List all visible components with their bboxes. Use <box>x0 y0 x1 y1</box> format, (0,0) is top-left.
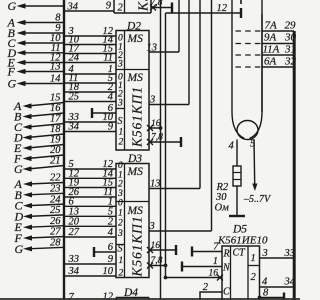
svg-text:3: 3 <box>117 229 123 239</box>
svg-text:G: G <box>8 0 17 13</box>
svg-text:C: C <box>223 287 230 298</box>
svg-text:3: 3 <box>117 99 123 109</box>
svg-text:33: 33 <box>68 254 80 265</box>
node F13 input wire <box>7 62 65 79</box>
VFD tube envelope (cut off at top) <box>232 0 245 139</box>
node B16 input wire <box>14 103 64 123</box>
svg-text:2: 2 <box>119 138 124 148</box>
svg-text:27: 27 <box>50 227 61 238</box>
svg-text:4: 4 <box>108 227 114 238</box>
svg-text:16: 16 <box>151 241 161 251</box>
D5 pin 1 input wire from terminal <box>182 256 222 272</box>
svg-text:12: 12 <box>217 3 228 14</box>
svg-text:6: 6 <box>108 242 114 253</box>
svg-text:9: 9 <box>108 254 114 265</box>
thick cable rail at right <box>293 31 296 300</box>
node F20 input wire <box>13 145 64 165</box>
svg-text:2: 2 <box>118 180 123 190</box>
svg-text:8: 8 <box>55 13 61 24</box>
svg-text:S: S <box>118 244 123 255</box>
svg-text:4: 4 <box>262 277 268 288</box>
wire tap 34 to D3 pin 10 <box>64 266 116 277</box>
node A22 input wire <box>14 173 65 191</box>
terminal of wire 12 <box>240 8 242 18</box>
anode row 9A wire 30 <box>262 32 297 44</box>
svg-text:34: 34 <box>68 122 80 133</box>
anode row 6A wire 32 <box>262 56 297 68</box>
svg-text:3: 3 <box>149 95 155 106</box>
svg-text:11A: 11A <box>263 44 280 56</box>
wire from tube pin 4 <box>236 140 238 167</box>
wire tap 12 to D3 pin 14 <box>64 169 116 180</box>
counter D5 К561ИЕ10 <box>217 224 268 300</box>
junction: D2 pin16 to rail 1 <box>159 126 163 130</box>
svg-text:2: 2 <box>108 217 114 228</box>
svg-text:24: 24 <box>50 194 61 205</box>
svg-text:21: 21 <box>50 156 61 167</box>
D2 output pin 13 wire <box>147 43 180 54</box>
wire riser D from D3 output 3 <box>211 0 213 231</box>
D5 output pin 3 wire to 33 <box>260 248 296 259</box>
svg-text:18: 18 <box>50 124 61 135</box>
D5 clock pin 2 wire from bottom edge <box>200 282 222 300</box>
svg-text:4: 4 <box>229 141 235 152</box>
svg-text:MS: MS <box>127 205 144 217</box>
svg-text:7,8: 7,8 <box>151 133 163 143</box>
wire stub at top edge above terminal <box>240 0 242 4</box>
svg-text:20: 20 <box>50 145 61 156</box>
svg-text:24: 24 <box>69 53 80 64</box>
svg-text:34: 34 <box>67 2 79 13</box>
svg-text:0: 0 <box>118 198 123 208</box>
junction: D3 7,8 to rail 2 <box>164 264 168 268</box>
wire from tube pin 5 with voltage arrow <box>252 140 257 192</box>
svg-text:13: 13 <box>150 179 161 190</box>
junction: rail 2 to D5 pin16 wire <box>164 276 168 280</box>
wire tap 5 to D3 pin 12 <box>64 159 116 170</box>
D2 output pin 3 wire <box>149 95 189 106</box>
wire tap 33 to D2 pin 10 <box>64 112 116 123</box>
svg-text:S: S <box>118 116 123 127</box>
R2 value label <box>215 182 230 214</box>
svg-text:R: R <box>223 249 230 260</box>
svg-text:Ом: Ом <box>215 203 230 214</box>
D2 power pin 16 wire <box>147 119 161 131</box>
D5 output pin 4 wire to 34 <box>260 277 296 288</box>
wire tap 7 to D4 pin 12 (cut off at bottom) <box>69 292 114 300</box>
svg-text:К561КП1: К561КП1 <box>130 86 145 148</box>
svg-text:К561ИЕ10: К561ИЕ10 <box>217 235 268 247</box>
wire riser B from D2 output 3 <box>188 0 190 105</box>
svg-text:1: 1 <box>119 256 124 266</box>
svg-text:3: 3 <box>117 60 123 70</box>
wire tap 18 to D2 pin 2 <box>64 82 116 93</box>
wire: power rail 2 (vertical, from pin12 wire down to D5) <box>165 13 167 278</box>
svg-text:8: 8 <box>263 288 269 299</box>
D5 power pin 16 wire from rail 2 <box>166 269 224 281</box>
svg-text:1: 1 <box>118 208 123 218</box>
wire tap 34 to D2 pin 9 <box>64 122 116 133</box>
wire tap 27 to D3 pin 4 <box>64 227 116 238</box>
svg-text:25: 25 <box>69 92 80 103</box>
svg-text:CT: CT <box>233 248 247 259</box>
wire tap 20 to D3 pin 2 <box>64 217 116 228</box>
svg-text:G: G <box>14 162 23 176</box>
svg-text:20: 20 <box>69 217 80 228</box>
svg-text:27: 27 <box>69 227 80 238</box>
svg-text:28: 28 <box>50 238 61 249</box>
svg-text:3: 3 <box>149 221 155 232</box>
wire riser C from D3 output 13 <box>199 0 201 189</box>
D2 power pins 7,8 wire <box>147 133 181 146</box>
wire: pin 12 supply wire to terminal at top right <box>166 3 242 14</box>
svg-text:N: N <box>222 263 231 274</box>
D3 strobe pin 6 wire from terminal <box>94 242 116 257</box>
node G21 input wire <box>14 156 64 176</box>
svg-text:15: 15 <box>50 93 61 104</box>
svg-text:34: 34 <box>68 266 80 277</box>
svg-text:11: 11 <box>103 53 113 64</box>
wire tap 4 to D2 pin 1 <box>64 64 116 75</box>
node F27 input wire <box>14 227 65 245</box>
anode row 7A wire 29 <box>262 20 296 32</box>
node A8 input wire <box>7 13 65 30</box>
D3 output pin 3 wire <box>149 221 212 232</box>
node C17 input wire <box>14 114 64 134</box>
node G28 input wire <box>15 238 65 256</box>
svg-text:G: G <box>15 242 24 256</box>
D3 output pin 13 wire <box>149 179 200 190</box>
wire tap 17 to D2 pin 15 <box>64 44 116 55</box>
tube base circle <box>237 121 258 140</box>
wire riser A from D2 output 13 <box>178 0 180 52</box>
node B23 input wire <box>15 184 65 202</box>
wire tap 13 to D3 pin 5 <box>64 207 116 218</box>
node D18 input wire <box>13 124 64 144</box>
svg-text:16: 16 <box>209 269 219 279</box>
svg-text:13: 13 <box>50 62 61 73</box>
svg-text:29: 29 <box>285 20 297 32</box>
node G14 input wire <box>8 74 65 91</box>
svg-text:19: 19 <box>50 135 61 146</box>
anode table left edge / tube right edge shared <box>261 14 263 112</box>
wire tap 24 to D2 pin 11 <box>64 53 116 64</box>
wire tap 11 to D2 pin 5 <box>64 73 116 84</box>
node E19 input wire <box>13 135 64 155</box>
node C10 input wire <box>8 33 65 50</box>
svg-text:6A: 6A <box>264 56 277 68</box>
svg-text:1: 1 <box>213 256 218 267</box>
anode row 11A wire 31 <box>262 44 296 56</box>
tube grid dashed lines <box>236 30 261 32</box>
svg-text:7,8: 7,8 <box>151 256 163 266</box>
svg-text:–5..7V: –5..7V <box>243 194 272 205</box>
svg-text:4: 4 <box>108 92 114 103</box>
svg-text:1: 1 <box>251 253 256 264</box>
wire tap 33 to D3 pin 9 <box>64 254 116 265</box>
multiplexer D4 (partially cut off at bottom edge) <box>116 287 149 300</box>
svg-text:13: 13 <box>147 43 158 54</box>
resistor R2 <box>233 166 241 186</box>
svg-text:14: 14 <box>50 74 61 85</box>
svg-text:30: 30 <box>215 192 227 203</box>
svg-text:23: 23 <box>50 184 61 195</box>
wire: power rail 1 (vertical) <box>160 0 162 300</box>
svg-text:26: 26 <box>50 216 61 227</box>
wire tap 26 to D3 pin 11 <box>64 187 116 198</box>
svg-text:10: 10 <box>103 266 114 277</box>
svg-text:G: G <box>8 77 17 91</box>
D3 power pins 7,8 wire <box>147 256 166 269</box>
multiplexer D1 (partially cut off at top edge) <box>114 0 151 14</box>
svg-text:7: 7 <box>213 242 219 253</box>
svg-text:22: 22 <box>50 173 61 184</box>
D5 pin 8 wire with terminal <box>260 288 285 299</box>
node C24 input wire <box>15 194 65 212</box>
D3 power pin 16 wire <box>147 241 176 253</box>
svg-text:MS: MS <box>127 33 144 45</box>
wire tap 10 to D2 pin 14 <box>64 35 116 46</box>
svg-text:1: 1 <box>119 128 124 138</box>
svg-text:К5: К5 <box>136 0 151 12</box>
svg-text:MS: MS <box>127 72 144 84</box>
svg-text:9: 9 <box>108 122 114 133</box>
D1 power pins 7,8 wire with terminal <box>150 0 172 13</box>
multiplexer D2 К561КП1 <box>116 21 149 151</box>
svg-text:2: 2 <box>118 218 123 228</box>
wire below R2 <box>236 186 238 216</box>
D5 pin 7 input wire from terminal <box>192 242 222 257</box>
svg-text:25: 25 <box>50 205 61 216</box>
node E12 input wire <box>7 53 65 70</box>
wire tap 19 to D3 pin 15 <box>64 178 116 189</box>
svg-text:К561КП1: К561КП1 <box>130 216 145 278</box>
wire tap 6 to D3 pin 1 <box>64 197 116 208</box>
svg-text:16: 16 <box>50 103 61 114</box>
wire tap 3 to D2 pin 12 <box>64 26 116 37</box>
terminal of D3 pin16 wire <box>175 245 177 255</box>
node B9 input wire <box>8 23 65 40</box>
svg-text:9A: 9A <box>264 32 277 44</box>
wire tap 25 to D2 pin 4 <box>64 92 116 103</box>
svg-text:2: 2 <box>203 282 209 293</box>
svg-text:17: 17 <box>50 114 61 125</box>
svg-text:2: 2 <box>118 3 124 14</box>
svg-text:3: 3 <box>262 248 268 259</box>
wire: vertical bus line <box>63 0 65 300</box>
terminal of D2 7,8 wire <box>180 137 182 147</box>
svg-text:2: 2 <box>251 272 257 283</box>
svg-text:9: 9 <box>106 1 112 12</box>
svg-text:7A: 7A <box>265 20 278 32</box>
node E26 input wire <box>14 216 65 234</box>
D2 strobe pin 6 wire from terminal <box>92 103 116 118</box>
node A15 input wire <box>13 93 64 113</box>
node D11 input wire <box>7 43 65 60</box>
node D25 input wire <box>14 205 65 223</box>
terminal below R2 <box>229 215 245 217</box>
terminal of D5 pin 8 wire <box>283 293 285 300</box>
svg-text:MS: MS <box>127 166 144 178</box>
node G input wire <box>8 0 65 13</box>
wire tap 34 to D1 pin 9 <box>64 1 114 13</box>
svg-text:2: 2 <box>119 269 124 279</box>
junction at D5 pin 8 <box>258 296 262 300</box>
multiplexer D3 К561КП1 <box>116 153 149 279</box>
scan artifact line at bottom edge <box>0 298 300 300</box>
